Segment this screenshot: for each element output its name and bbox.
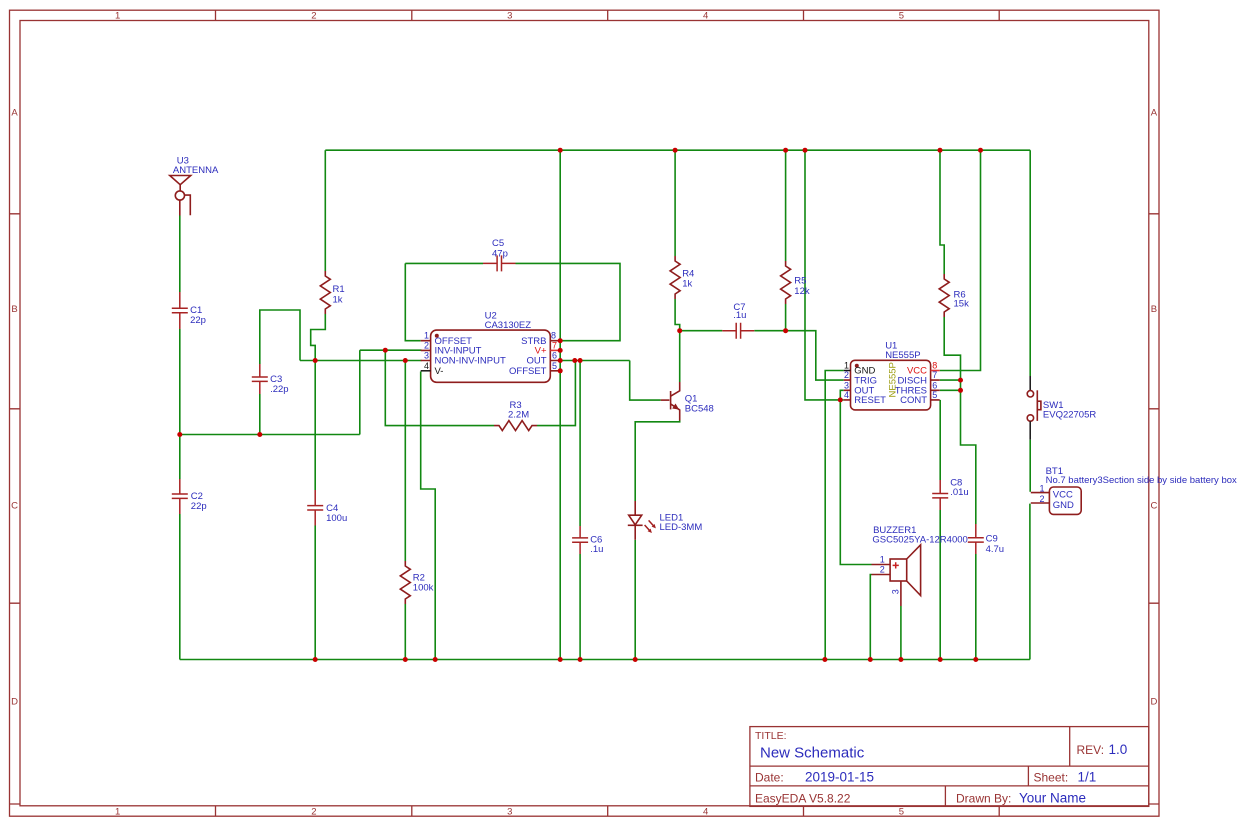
wire Q1 emitter to LED — [635, 421, 680, 502]
capacitor C6 — [572, 526, 603, 555]
svg-text:LED-3MM: LED-3MM — [660, 522, 703, 533]
junction bus x785 — [783, 148, 788, 153]
wire bottom ground rail — [180, 659, 1030, 661]
wire R1 top from bus — [324, 150, 326, 271]
svg-text:TITLE:: TITLE: — [755, 730, 787, 742]
svg-text:ANTENNA: ANTENNA — [173, 165, 219, 176]
svg-text:NE555P: NE555P — [887, 362, 898, 397]
svg-text:EVQ22705R: EVQ22705R — [1043, 410, 1096, 421]
svg-text:22p: 22p — [191, 501, 207, 512]
junction bus x675 — [673, 148, 678, 153]
svg-text:8: 8 — [551, 331, 556, 341]
capacitor C3 — [252, 364, 289, 395]
svg-text:D: D — [11, 696, 18, 707]
junction C7 left — [677, 328, 682, 333]
wire C4 top from R1 node — [314, 361, 316, 491]
junction C7 right — [783, 328, 788, 333]
svg-text:1: 1 — [880, 555, 885, 565]
wire Q1 collector up — [679, 331, 681, 382]
resistor R6 — [939, 274, 969, 317]
svg-text:1.0: 1.0 — [1109, 742, 1128, 757]
buzzer BUZZER1 — [872, 525, 968, 606]
capacitor C4 — [307, 490, 347, 526]
svg-text:15k: 15k — [954, 299, 970, 310]
op-amp U2 CA3130EZ — [421, 310, 561, 382]
svg-text:C: C — [11, 500, 18, 511]
svg-text:.1u: .1u — [590, 544, 603, 555]
svg-text:7: 7 — [552, 340, 557, 350]
svg-text:1: 1 — [424, 331, 429, 341]
resistor R3 — [494, 400, 537, 431]
junction C1 C2 node — [177, 432, 182, 437]
svg-text:7: 7 — [932, 370, 937, 380]
svg-text:3: 3 — [507, 10, 512, 21]
junction R1 node — [313, 358, 318, 363]
svg-text:3: 3 — [890, 589, 900, 594]
capacitor C2 — [172, 479, 207, 514]
junction pin6 row b — [578, 358, 583, 363]
svg-text:22p: 22p — [190, 315, 206, 326]
wire RESET feed from bus — [805, 150, 844, 400]
svg-text:100k: 100k — [413, 582, 434, 593]
svg-text:Drawn By:: Drawn By: — [956, 792, 1011, 806]
junction bus x981 — [978, 148, 983, 153]
wire U2 pin3 row — [300, 360, 422, 362]
junction rail V- — [433, 657, 438, 662]
wire SW1 bottom to BT1 VCC — [1029, 440, 1031, 492]
junction rail buzzer2 — [868, 657, 873, 662]
wire C9 bottom to rail — [975, 554, 977, 660]
wire OUT to Q1 base — [630, 361, 661, 401]
junction pin6 row a — [572, 358, 577, 363]
wire pin2 node down to R3 row — [385, 350, 494, 425]
junction rail buzzer3 — [898, 657, 903, 662]
wire BT1 GND down — [1029, 504, 1031, 660]
junction U2 pin7 — [558, 348, 563, 353]
junction U1 thres node — [958, 388, 963, 393]
svg-text:.01u: .01u — [950, 487, 969, 498]
svg-text:A: A — [11, 108, 18, 119]
junction R2 node — [403, 358, 408, 363]
svg-text:Date:: Date: — [755, 771, 784, 785]
wire R1 bottom jog to node — [311, 314, 326, 361]
svg-text:CA3130EZ: CA3130EZ — [485, 320, 532, 331]
resistor R1 — [320, 271, 344, 314]
junction U2 pin5 — [558, 368, 563, 373]
svg-text:5: 5 — [552, 361, 557, 371]
svg-text:2: 2 — [880, 565, 885, 575]
junction bus x805 — [803, 148, 808, 153]
svg-text:A: A — [1151, 108, 1158, 119]
svg-text:1: 1 — [115, 806, 120, 817]
wire U1 THRES link — [940, 389, 961, 391]
junction bus x560 — [558, 148, 563, 153]
svg-text:VCC: VCC — [1053, 489, 1073, 500]
capacitor C7 — [722, 302, 754, 339]
wire C2 top — [179, 435, 181, 480]
svg-text:100u: 100u — [326, 513, 347, 524]
svg-text:1k: 1k — [333, 295, 343, 306]
wire C2 to bottom rail — [179, 514, 181, 660]
wire LED bottom to rail — [634, 540, 636, 660]
junction rail x560 — [558, 657, 563, 662]
antenna U3 — [170, 156, 219, 216]
wire buzzer pin2 to rail — [870, 575, 871, 660]
wire U2 pin6 OUT row — [560, 360, 630, 362]
capacitor C1 — [172, 292, 206, 329]
LED1 LED-3MM — [628, 501, 703, 540]
svg-text:R5: R5 — [794, 276, 806, 287]
wire R2 bottom to rail — [404, 604, 406, 660]
svg-text:2019-01-15: 2019-01-15 — [805, 770, 874, 785]
svg-text:C9: C9 — [986, 534, 998, 545]
wire VCC feed from bus — [940, 150, 981, 370]
junction U2 pin8 — [558, 338, 563, 343]
capacitor C8 — [932, 477, 969, 510]
svg-text:BC548: BC548 — [685, 404, 714, 415]
svg-text:1/1: 1/1 — [1078, 770, 1097, 785]
svg-text:3: 3 — [844, 380, 849, 390]
wire buzzer pin3 to rail — [900, 606, 902, 660]
svg-text:EasyEDA V5.8.22: EasyEDA V5.8.22 — [755, 792, 851, 806]
wire THRES vertical to C9 — [961, 380, 976, 524]
wire C5 row left — [405, 262, 483, 264]
svg-text:4.7u: 4.7u — [986, 544, 1005, 555]
svg-text:47p: 47p — [492, 248, 508, 259]
svg-text:3: 3 — [507, 806, 512, 817]
wire R2 top from pin3 row — [404, 361, 406, 562]
svg-text:12k: 12k — [794, 286, 810, 297]
junction rail U1 gnd — [822, 657, 827, 662]
wire bus right end down to SW1 — [1029, 150, 1031, 376]
svg-text:2: 2 — [424, 340, 429, 350]
svg-text:No.7 battery3Section side by s: No.7 battery3Section side by side batter… — [1046, 475, 1237, 486]
svg-text:5: 5 — [899, 10, 904, 21]
svg-text:2: 2 — [311, 806, 316, 817]
svg-text:REV:: REV: — [1077, 743, 1105, 757]
wire R3 right to pin6 node — [537, 361, 575, 426]
capacitor C5 — [483, 238, 516, 271]
junction U1 reset node — [838, 397, 843, 402]
junction U2 pin6 — [558, 358, 563, 363]
svg-text:4: 4 — [703, 10, 708, 21]
svg-text:5: 5 — [932, 390, 937, 400]
svg-text:R1: R1 — [333, 284, 345, 295]
wire C1 to junction row — [179, 329, 181, 435]
svg-text:GSC5025YA-12R4000: GSC5025YA-12R4000 — [872, 535, 967, 546]
wire R6 bottom to DISCH vertical — [944, 317, 960, 380]
junction U1 disch node — [958, 378, 963, 383]
resistor R5 — [781, 261, 810, 304]
wire U2 pin2 row — [360, 349, 422, 351]
wire C8 bottom to rail — [939, 510, 941, 660]
wire C6 bottom to rail — [579, 554, 581, 660]
wire R5 top from bus — [785, 150, 787, 261]
wire R6 top from bus — [940, 150, 944, 274]
svg-text:2.2M: 2.2M — [508, 409, 529, 420]
svg-text:5: 5 — [899, 806, 904, 817]
svg-text:6: 6 — [932, 380, 937, 390]
svg-text:.22p: .22p — [270, 384, 289, 395]
junction C3 node — [257, 432, 262, 437]
junction bus x940 — [938, 148, 943, 153]
wire node row434 up to pin2 row — [359, 350, 361, 434]
wire junction row y434 — [180, 434, 360, 436]
wire C7 row right — [754, 330, 785, 332]
resistor R2 — [400, 561, 433, 604]
svg-text:1: 1 — [115, 10, 120, 21]
wire C3 bottom to junction row — [259, 394, 261, 435]
wire C4 bottom to rail — [314, 526, 316, 660]
svg-text:NON-INV-INPUT: NON-INV-INPUT — [435, 356, 506, 367]
svg-text:1k: 1k — [682, 279, 692, 290]
svg-text:.1u: .1u — [733, 310, 746, 321]
wire top supply bus — [325, 149, 1030, 151]
svg-text:4: 4 — [844, 390, 849, 400]
svg-text:8: 8 — [932, 361, 937, 371]
svg-text:2: 2 — [844, 370, 849, 380]
junction rail R2 — [403, 657, 408, 662]
svg-text:1: 1 — [844, 361, 849, 371]
svg-text:4: 4 — [703, 806, 708, 817]
switch SW1 — [1027, 376, 1096, 440]
wire R4 top from bus — [674, 150, 676, 256]
svg-text:CONT: CONT — [900, 395, 927, 406]
svg-text:B: B — [11, 304, 17, 315]
wire C5 left vertical to U2 pin1 — [405, 263, 420, 340]
junction rail C9 — [973, 657, 978, 662]
junction pin2 row — [383, 348, 388, 353]
wire U1 CONT down to C8 — [939, 400, 941, 480]
svg-text:V-: V- — [435, 366, 444, 377]
svg-text:OFFSET: OFFSET — [509, 366, 547, 377]
title block — [750, 727, 1149, 807]
junction rail C6 — [578, 657, 583, 662]
wire RESET node down to buzzer pin1 — [840, 400, 871, 565]
transistor Q1 BC548 — [661, 382, 714, 421]
wire U2 right vertical from bus to rail — [559, 150, 561, 659]
svg-text:Sheet:: Sheet: — [1034, 771, 1069, 785]
wire C7 row left — [680, 330, 723, 332]
svg-text:D: D — [1150, 696, 1157, 707]
svg-text:C: C — [1150, 500, 1157, 511]
junction rail LED — [633, 657, 638, 662]
svg-text:3: 3 — [424, 351, 429, 361]
resistor R4 — [670, 256, 694, 299]
svg-text:Your Name: Your Name — [1019, 791, 1086, 806]
svg-text:2: 2 — [1039, 494, 1044, 504]
wire U1 pin3 OUT link — [840, 390, 843, 400]
wire R5 bottom to C7 node — [785, 304, 787, 331]
battery BT1 — [1031, 466, 1237, 514]
svg-text:4: 4 — [424, 361, 429, 371]
svg-text:1: 1 — [1039, 484, 1044, 494]
svg-text:6: 6 — [552, 351, 557, 361]
junction rail C4 — [313, 657, 318, 662]
svg-text:RESET: RESET — [854, 395, 886, 406]
svg-text:NE555P: NE555P — [885, 350, 920, 361]
svg-text:2: 2 — [311, 10, 316, 21]
svg-text:B: B — [1151, 304, 1157, 315]
svg-text:New Schematic: New Schematic — [760, 745, 865, 762]
wire U2 V- down — [421, 372, 436, 660]
svg-text:GND: GND — [1053, 500, 1074, 511]
timer U1 NE555P — [844, 341, 940, 410]
wire C3 top link — [260, 310, 300, 364]
capacitor C9 — [968, 524, 1004, 555]
junction rail C8 — [938, 657, 943, 662]
wire C7 node to U1 TRIG — [786, 331, 844, 380]
wire R4 bottom jog to C7 node — [675, 299, 680, 331]
wire U1 GND to rail — [825, 371, 844, 660]
wire U1 DISCH link — [940, 379, 961, 381]
wire antenna to C1 — [179, 216, 181, 293]
wire C5 row right and return to pin8 — [516, 263, 621, 340]
wire C6 branch down — [579, 361, 581, 527]
